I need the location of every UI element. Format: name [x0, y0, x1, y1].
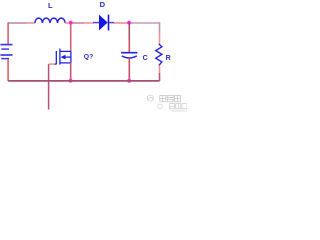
wire node B down to capacitor: [128, 23, 130, 40]
node C junction dot (source to rail): [68, 78, 73, 83]
wire resistor to bottom rail: [159, 65, 161, 73]
diode D: [93, 15, 114, 31]
svg-text:D: D: [100, 0, 106, 9]
resistor R: [156, 44, 162, 65]
wire gate horizontal: [49, 63, 55, 65]
wire gate vertical (drive line, crosses bottom rail): [48, 64, 50, 109]
inductor L: [35, 18, 65, 23]
svg-text:R: R: [166, 55, 171, 62]
watermark logo + text (dianyuan): [147, 95, 180, 102]
node D junction dot: [127, 79, 132, 84]
wire MOSFET source to bottom rail: [70, 63, 72, 81]
svg-text:L: L: [48, 1, 53, 10]
node A junction dot: [69, 20, 74, 25]
wire node B to top-right corner: [129, 22, 160, 24]
svg-text:Q?: Q?: [84, 53, 93, 60]
wire capacitor to node D on bottom rail: [128, 58, 130, 81]
wire battery - to bottom rail: [7, 59, 9, 81]
wire top-left horizontal (input rail): [8, 22, 27, 24]
wire top-right vertical to resistor: [159, 22, 161, 33]
svg-text:C: C: [143, 55, 148, 62]
wire bottom rail (ground return): [8, 80, 159, 82]
wire inductor to node A: [65, 22, 71, 24]
capacitor C (polarized): [121, 53, 137, 58]
transistor Q? (N-MOSFET): [55, 49, 71, 65]
watermark bottom-right corner (partial): [158, 104, 187, 111]
battery BT (input source): [0, 45, 12, 59]
wire node A down to MOSFET drain: [70, 23, 72, 52]
wire left vertical from top rail to battery +: [7, 22, 9, 44]
wire node A to diode anode: [71, 22, 84, 24]
node B junction dot: [127, 20, 132, 25]
wire diode cathode to node B: [114, 22, 129, 24]
